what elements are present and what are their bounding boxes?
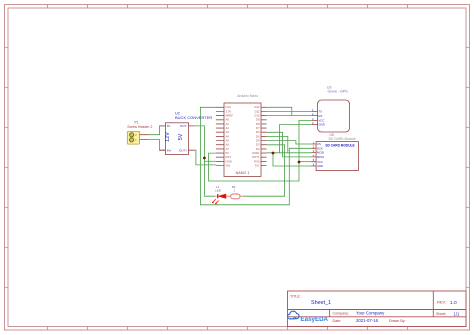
wire nano D6 to SD MISO [267, 132, 312, 157]
svg-text:1: 1 [233, 188, 235, 192]
frame ruler ticks top [48, 5, 408, 9]
wire GND junction to SD GND [273, 153, 311, 166]
svg-text:Arduino Nano: Arduino Nano [237, 94, 258, 98]
svg-text:GND: GND [319, 123, 325, 127]
svg-text:Drawn By:: Drawn By: [389, 319, 406, 323]
wire buck OUT+ to nano VIN [195, 150, 216, 165]
wire nano D4 to SD CS [267, 141, 312, 144]
wire nano D13 loop to SD SCK [200, 107, 311, 205]
EasyEDA logo [288, 311, 329, 323]
svg-text:12V: 12V [165, 132, 171, 142]
svg-text:SD CARD Module: SD CARD Module [328, 137, 355, 141]
svg-text:VIN: VIN [226, 163, 231, 167]
wire P1 pin1 to buck IN+ [149, 140, 166, 151]
svg-text:IN+: IN+ [167, 149, 172, 153]
svg-text:Grove - GPS: Grove - GPS [328, 89, 349, 93]
svg-text:GND: GND [317, 164, 323, 168]
frame ruler ticks bottom [48, 327, 408, 331]
arduino nano NANO 1 [216, 94, 267, 176]
title block [288, 291, 467, 327]
svg-text:Screw Header 2: Screw Header 2 [127, 125, 152, 129]
svg-text:TITLE:: TITLE: [290, 295, 301, 299]
svg-text:1.0: 1.0 [450, 300, 457, 306]
wire nano GND / SD MOSI row [267, 152, 312, 154]
svg-text:TX1: TX1 [254, 163, 260, 167]
frame ruler ticks left [5, 48, 9, 288]
SD card module U5 [311, 133, 358, 171]
wire GND riser to GPS GND [280, 125, 313, 153]
wire 5V to SD VCC [299, 161, 311, 163]
wire nano D10 to GPS RX [267, 115, 313, 117]
screw header P1 [127, 121, 152, 144]
GPS module U3 [312, 86, 350, 132]
svg-text:NANO 1: NANO 1 [236, 171, 250, 175]
wire nano D5 to SD MOSI [267, 136, 288, 152]
junction dot A [203, 157, 206, 160]
wire nano D11 to GPS TX [267, 111, 313, 113]
svg-text:2021-07-16: 2021-07-16 [356, 318, 379, 323]
wire R1 to nano D3 [243, 145, 285, 196]
svg-text:IN-: IN- [167, 124, 171, 128]
svg-text:1/1: 1/1 [454, 312, 460, 317]
svg-text:Sheet:: Sheet: [436, 312, 446, 316]
frame ruler ticks right [466, 48, 470, 288]
svg-text:OUT-: OUT- [180, 124, 187, 128]
svg-text:EasyEDA: EasyEDA [301, 316, 329, 323]
LED L1 [212, 185, 231, 204]
svg-text:Company:: Company: [333, 311, 349, 315]
svg-text:BUCK CONVERTER: BUCK CONVERTER [175, 115, 212, 120]
svg-text:OUT+: OUT+ [179, 149, 187, 153]
svg-text:Your Company: Your Company [356, 311, 385, 316]
svg-text:REV:: REV: [437, 300, 446, 305]
wire nano 5V rail to GPS VCC [209, 120, 313, 181]
svg-text:LED: LED [215, 188, 222, 192]
junction dot B [272, 152, 275, 155]
wire P1 pin2 to buck IN- [149, 126, 166, 135]
wire buck OUT- to LED cathode (GND) [195, 126, 215, 196]
resistor R1 [231, 185, 243, 199]
svg-text:SD CARD MODULE: SD CARD MODULE [325, 144, 354, 148]
svg-text:Sheet_1: Sheet_1 [311, 300, 331, 306]
svg-text:5V: 5V [178, 133, 184, 140]
svg-text:Date:: Date: [333, 319, 342, 323]
wire GND branch to nano GND pin [204, 160, 216, 162]
buck converter U2 [159, 112, 212, 155]
junction dot C [298, 161, 301, 164]
svg-text:MISO: MISO [317, 155, 325, 159]
svg-text:RX: RX [319, 114, 323, 118]
wire nano D12 to GPS RX net [267, 107, 292, 115]
